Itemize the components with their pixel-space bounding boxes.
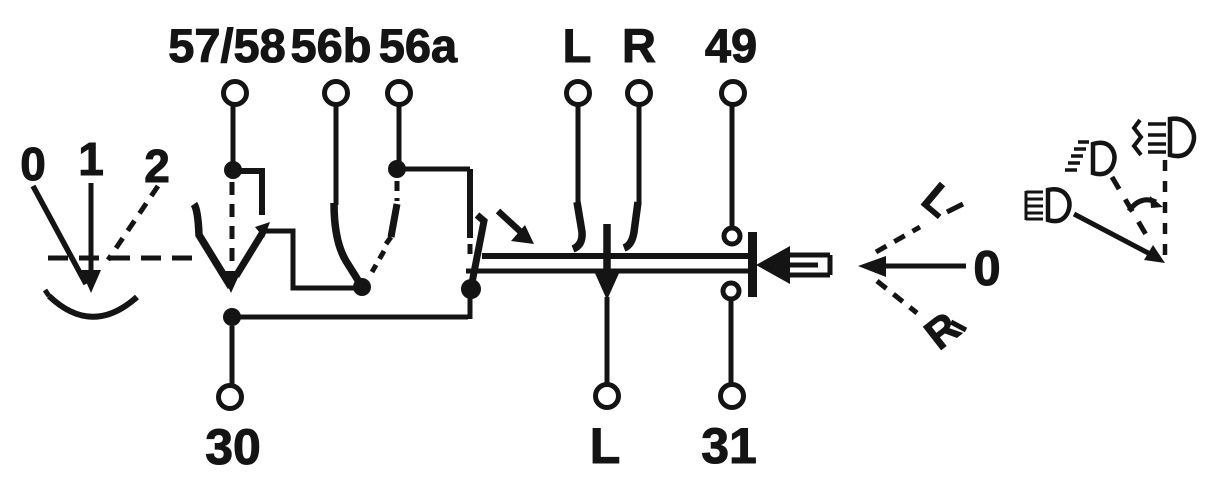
junction 57/58	[224, 161, 242, 179]
terminal 57/58	[224, 82, 247, 105]
svg-text:56b: 56b	[291, 19, 372, 72]
lever dashed R branch	[877, 281, 917, 313]
lamp 2 rays	[1148, 124, 1166, 152]
rotary dashed axis	[48, 256, 197, 261]
rotary position 0 line	[33, 186, 86, 284]
terminal R top	[628, 82, 651, 105]
svg-text:2: 2	[144, 140, 170, 192]
svg-text:57/58: 57/58	[168, 19, 286, 72]
contact plate bar	[748, 232, 757, 297]
wire 56a to right	[397, 167, 470, 172]
lever dashed L branch	[876, 227, 920, 252]
terminal 56a	[388, 82, 411, 105]
push arrow	[498, 211, 523, 234]
svg-text:49: 49	[705, 19, 757, 72]
switch1 left blade	[194, 204, 231, 287]
svg-text:1: 1	[78, 133, 104, 185]
blade R	[637, 104, 642, 204]
lamp 2 zigzag	[1134, 120, 1141, 155]
wire from right blade to 56b contact	[264, 231, 355, 288]
terminal L top	[567, 82, 590, 105]
lever dashed vertical	[1163, 160, 1168, 255]
push knob	[790, 255, 830, 275]
wire 49 down	[730, 104, 735, 226]
svg-text:0: 0	[20, 138, 46, 190]
wire 57/58 down	[231, 104, 236, 163]
switch1 dashed center arm	[230, 182, 235, 266]
shaft bottom line	[466, 269, 748, 274]
blade 56b	[334, 203, 361, 285]
rotary position 1 arrow	[89, 183, 94, 272]
contact point 56b	[353, 278, 371, 296]
blade L	[576, 104, 581, 204]
push arrowhead	[756, 246, 790, 284]
svg-text:L: L	[590, 418, 621, 474]
svg-text:R: R	[916, 303, 969, 359]
svg-text:0: 0	[973, 242, 1000, 296]
wire pivot to 30	[230, 326, 235, 385]
switch2 blade	[471, 215, 484, 288]
pivot switch2	[461, 279, 481, 299]
rotary position 2 dashed line	[108, 186, 158, 260]
lamp 0 rays	[1026, 191, 1043, 220]
junction 56a	[388, 160, 406, 178]
svg-text:R: R	[622, 19, 656, 72]
lever dashed diagonal	[1112, 177, 1148, 238]
wire 56b down	[334, 104, 339, 205]
wire hook right of 57/58	[233, 171, 262, 215]
lever rotate arc	[1129, 200, 1156, 211]
lever solid arrow to pivot	[1074, 214, 1152, 255]
terminal 49	[722, 82, 745, 105]
lamp position 0	[1048, 189, 1070, 221]
svg-text:30: 30	[205, 419, 261, 475]
terminal L bottom	[596, 385, 619, 408]
lever arrow 0	[884, 264, 966, 269]
rotary travel arc	[49, 296, 137, 317]
svg-text:56a: 56a	[379, 19, 458, 72]
contact ring 49 lower	[723, 283, 739, 299]
wire 56a down	[397, 104, 402, 162]
lamp 1 rays	[1065, 142, 1089, 170]
contact ring 49 upper	[724, 228, 740, 244]
lamp position 2	[1170, 119, 1194, 156]
center contact arrow to L bottom	[603, 224, 611, 274]
svg-text:L: L	[563, 19, 592, 72]
switch1 right blade	[236, 232, 263, 276]
svg-text:31: 31	[701, 418, 757, 474]
shaft top line	[482, 253, 748, 259]
wire to 31	[729, 301, 734, 384]
switch1 arrowhead at pivot	[221, 271, 241, 293]
terminal 31	[721, 385, 744, 408]
junction 30	[223, 308, 241, 326]
terminal 30	[219, 386, 242, 409]
wire down to switch2	[467, 169, 473, 238]
terminal 56b	[325, 82, 348, 105]
svg-text:L: L	[913, 174, 963, 226]
lamp position 1	[1093, 143, 1115, 174]
wire 30 junction to switch2	[232, 315, 468, 320]
56a dashed blade	[395, 181, 400, 201]
